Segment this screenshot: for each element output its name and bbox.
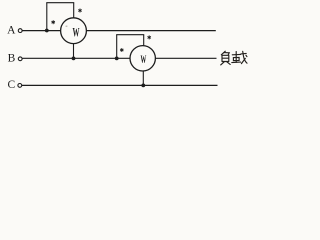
- node junction of W2 link on wire C: [141, 84, 145, 88]
- terminal A: [18, 29, 22, 33]
- wire B right segment: [155, 57, 216, 59]
- polarity star of W1 voltage coil: [78, 9, 81, 13]
- wire A left segment: [22, 30, 60, 32]
- wattmeter W2: [130, 46, 155, 71]
- polarity star of W2 voltage coil: [148, 35, 151, 39]
- 载: [232, 53, 240, 55]
- terminal B: [18, 57, 22, 61]
- wire A right segment: [86, 30, 215, 32]
- wire W2 bottom link to C: [142, 71, 144, 85]
- wire: voltage-coil loop W1 left vertical: [46, 3, 48, 31]
- svg-text:W: W: [141, 52, 147, 66]
- wattmeter W1: [61, 18, 87, 44]
- svg-text:C: C: [7, 79, 15, 91]
- terminal C: [18, 84, 22, 88]
- 负: [221, 51, 225, 55]
- node on wire A (junction dot): [45, 29, 49, 33]
- node junction of W2 loop on wire B: [115, 57, 119, 61]
- wire: voltage-coil loop W1 right vertical: [73, 3, 75, 18]
- svg-text:W: W: [73, 25, 80, 39]
- wire: voltage-coil loop W2 right vertical: [143, 35, 145, 46]
- wire B left segment: [22, 57, 130, 59]
- load label 负载 (hand-drawn glyphs): [221, 51, 247, 65]
- wire: voltage-coil loop W1 top horizontal: [46, 2, 74, 4]
- node junction of W1 link on wire B: [72, 57, 76, 61]
- svg-text:B: B: [8, 52, 16, 64]
- wire C: [22, 84, 218, 86]
- polarity star of W2 current coil: [120, 48, 123, 52]
- wire: voltage-coil loop W2 left vertical: [116, 35, 118, 59]
- wire: voltage-coil loop W2 top horizontal: [116, 34, 144, 36]
- polarity star of W1 current coil: [52, 20, 55, 24]
- wire W1 bottom link to B: [73, 44, 75, 59]
- svg-text:A: A: [7, 24, 16, 36]
